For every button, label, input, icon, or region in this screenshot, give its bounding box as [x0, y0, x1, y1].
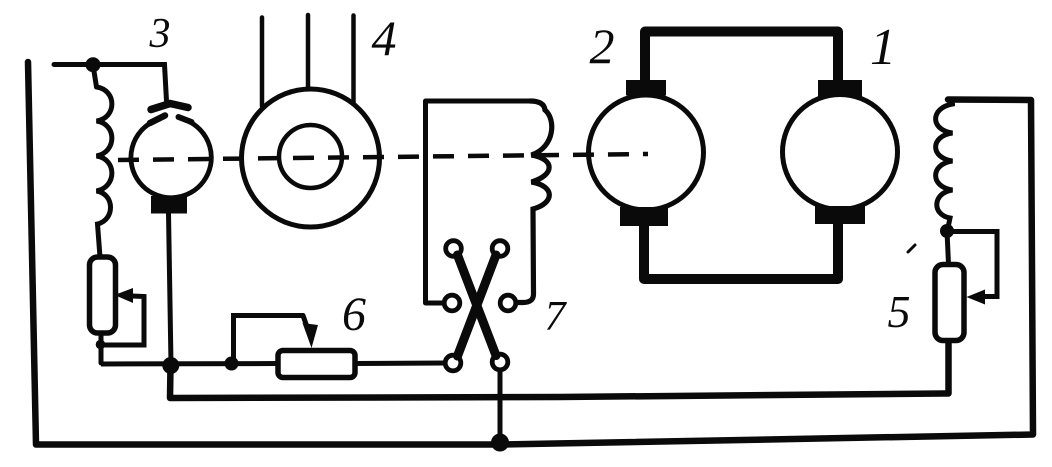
wire: junction to field coil of exciter: [93, 65, 97, 87]
wire: slider loop of rheostat 5: [947, 232, 997, 297]
arrow: slider arrow into rheostat 5: [967, 290, 986, 305]
node: junction on top-left wire: [86, 57, 101, 72]
contact circle mid-right of switch 7: [500, 295, 516, 311]
brush: generator 2 top: [626, 80, 666, 96]
wire: thick armature loop top: [645, 32, 838, 83]
svg-text:3: 3: [149, 11, 171, 57]
brush: motor 1 bottom: [815, 206, 865, 224]
wire: rheostat 6 to switch contact: [355, 361, 446, 367]
arrow: slider arrow into exciter rheostat: [115, 288, 134, 303]
svg-text:4: 4: [372, 10, 397, 66]
node: junction under exciter: [162, 357, 179, 374]
node: junction above rheostat 5: [940, 224, 954, 238]
svg-text:5: 5: [888, 286, 911, 337]
wire: mid return bus with risers: [170, 340, 949, 398]
brush tick left on exciter 3: [150, 116, 165, 124]
brush tick right on exciter 3: [179, 117, 192, 122]
machine: motor 1 circle: [783, 95, 898, 210]
inductor: field winding of motor 1 (bumps left): [936, 100, 953, 231]
switch blade: top-left to bottom-right: [458, 255, 497, 356]
machine: induction motor 4 inner circle: [279, 125, 342, 188]
resistor: field rheostat of exciter 3: [90, 257, 116, 333]
contact circle top-left of switch 7: [446, 241, 462, 257]
svg-text:1: 1: [870, 19, 896, 76]
wire: phase lead 3 of motor 4: [351, 16, 356, 105]
wire: phase lead 1 of motor 4: [260, 18, 265, 107]
inductor: field winding of exciter 3 (bumps to the right): [97, 87, 112, 257]
contact circle mid-left of switch 7: [444, 295, 460, 311]
switch blade: top-right to bottom-left: [458, 255, 497, 356]
brush: generator 2 bottom: [620, 207, 668, 226]
contact circle bottom-left of switch 7: [445, 355, 461, 371]
wire: phase lead 2 of motor 4: [306, 15, 311, 88]
brush: exciter 3 bottom brush (filled): [151, 196, 187, 214]
contact circle top-right of switch 7: [492, 241, 508, 257]
node: junction for rheostat 6 slider: [225, 357, 239, 371]
svg-text:2: 2: [590, 18, 615, 74]
wire: lower control bus (left horizontal): [101, 361, 278, 367]
resistor R5: [935, 265, 964, 341]
svg-text:6: 6: [342, 288, 366, 341]
contact circle bottom-right of switch 7: [492, 354, 508, 370]
contactor 7: frame left/top: [426, 101, 533, 303]
arrow: slider arrow onto rheostat 6: [303, 323, 319, 348]
machine: generator 2 circle: [589, 95, 704, 210]
node: small junction below rheostat: [96, 340, 106, 350]
brush: exciter 3 top brush bar: [151, 104, 188, 110]
svg-text:7: 7: [545, 294, 568, 340]
wire: outer frame (left vertical, bottom bus, right vertical, top-right lead): [28, 62, 1033, 445]
shaft: dashed mechanical coupling line: [118, 154, 648, 160]
brush: motor 1 top: [818, 80, 862, 97]
wire: slider loop of exciter rheostat: [101, 296, 144, 345]
wire: slider riser for rheostat 6: [234, 316, 304, 364]
wire: thick armature loop bottom: [644, 222, 838, 279]
inductor: coil of contactor 7 (bumps right): [516, 101, 552, 303]
wire: junction into rheostat 5: [947, 231, 949, 264]
speck: small tick near motor 1: [908, 245, 915, 252]
wire: exciter 3 bottom brush down to junction: [169, 213, 172, 364]
resistor R6: [278, 351, 355, 378]
node: junction on bottom bus: [491, 434, 509, 452]
machine: induction drive motor 4 outer circle: [242, 89, 380, 227]
wire: top-left supply wire: [54, 65, 167, 102]
wire: switch to bottom bus: [498, 370, 503, 444]
machine: exciter 3 armature circle (open at top): [131, 120, 211, 198]
wire: rheostat bottom lead down to bus: [99, 333, 104, 363]
